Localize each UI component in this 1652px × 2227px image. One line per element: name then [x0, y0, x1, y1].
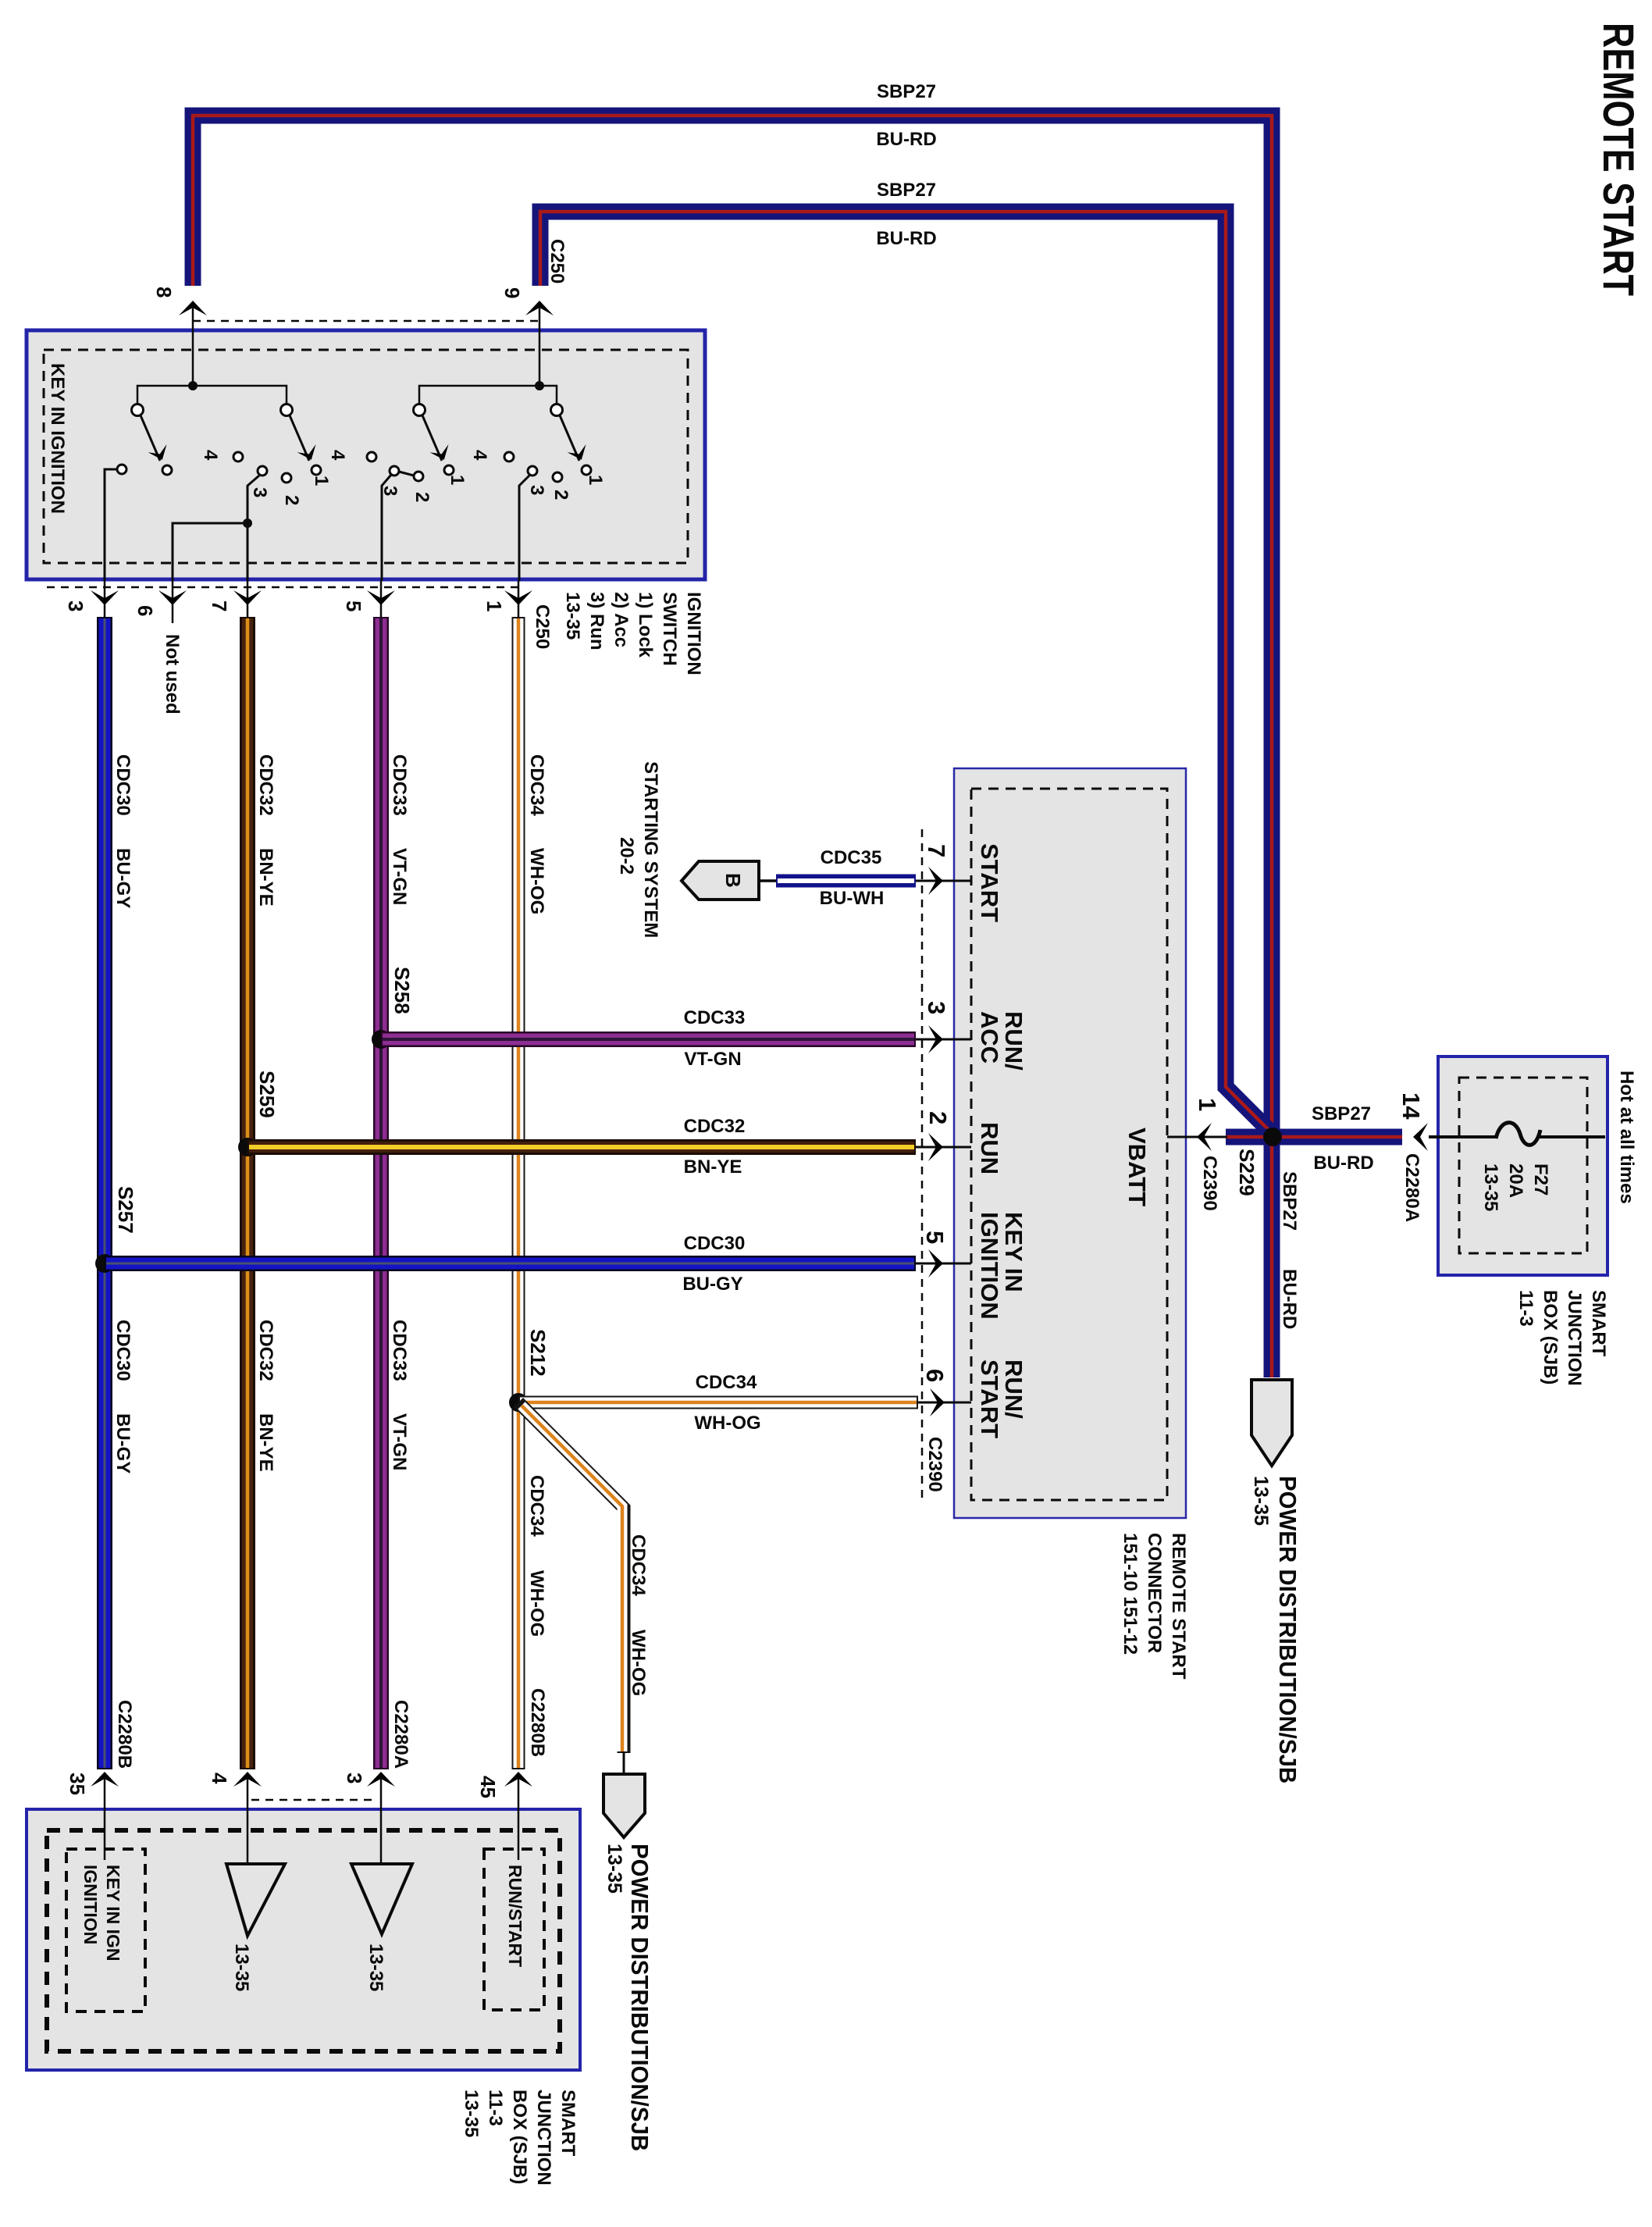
svg-text:2: 2: [924, 1111, 952, 1124]
switch wafer B: feed junction: [535, 381, 544, 390]
pin 14 arrow into fuse box: [1413, 1123, 1428, 1151]
wire CDC33 VT-GN (vertical): [373, 617, 389, 1769]
svg-text:5: 5: [342, 600, 365, 611]
svg-text:9: 9: [500, 287, 524, 298]
contact 2 (cluster 1): [282, 473, 291, 483]
svg-text:4: 4: [200, 450, 221, 461]
svg-text:CDC34: CDC34: [526, 754, 547, 816]
ground triangle 13-35 (pin 4): [226, 1864, 285, 1936]
wire CDC32 BN-YE (vertical): [240, 617, 255, 1769]
pin 7 arrow C250: [247, 581, 249, 617]
svg-text:VT-GN: VT-GN: [684, 1049, 741, 1070]
pin 8 arrow (C250): [179, 301, 207, 315]
svg-text:JUNCTION: JUNCTION: [1564, 1290, 1585, 1386]
contact 3 (cluster 1): [258, 466, 267, 476]
svg-text:SBP27: SBP27: [877, 180, 936, 201]
pin 1 stub of remote start connector (VBATT): [1167, 1136, 1227, 1138]
svg-text:WH-OG: WH-OG: [526, 848, 547, 914]
svg-text:2) Acc: 2) Acc: [611, 592, 632, 647]
svg-text:4: 4: [327, 450, 348, 461]
svg-text:1: 1: [311, 476, 332, 486]
svg-text:CDC34: CDC34: [628, 1534, 649, 1596]
svg-text:BU-RD: BU-RD: [876, 228, 936, 249]
pin 7 stub (START): [916, 880, 971, 882]
svg-text:4: 4: [469, 450, 490, 461]
wire junction to pin 6: [173, 523, 247, 581]
connector C2390 dashed line: [921, 829, 924, 1499]
pin 3 arrow C250: [104, 581, 106, 617]
svg-text:STARTING SYSTEM: STARTING SYSTEM: [640, 761, 661, 938]
svg-text:KEY IN IGN: KEY IN IGN: [103, 1865, 123, 1962]
svg-text:RUN/: RUN/: [1000, 1359, 1027, 1419]
splice S258 on CDC33: [372, 1030, 390, 1049]
svg-text:13-35: 13-35: [365, 1944, 386, 1991]
svg-text:11-3: 11-3: [485, 2090, 506, 2126]
svg-text:BU-GY: BU-GY: [682, 1274, 742, 1295]
svg-text:45: 45: [476, 1776, 500, 1798]
svg-text:RUN/: RUN/: [1000, 1011, 1027, 1071]
svg-text:1) Lock: 1) Lock: [635, 592, 656, 658]
svg-text:13-35: 13-35: [1480, 1163, 1501, 1211]
wire CDC34 WH-OG (diagonal branch to power distribution): [518, 1402, 624, 1753]
svg-text:4: 4: [208, 1773, 231, 1784]
wire contact 3 to junction (pins 6/7): [247, 476, 259, 523]
svg-text:13-35: 13-35: [461, 2090, 482, 2137]
svg-text:Hot at all times: Hot at all times: [1616, 1071, 1637, 1204]
contact 3 (cluster 2, feeds pin 5): [390, 466, 399, 476]
svg-text:BN-YE: BN-YE: [255, 848, 276, 907]
svg-text:VT-GN: VT-GN: [389, 848, 410, 905]
svg-text:7: 7: [208, 600, 231, 611]
starting system connector B: [682, 861, 759, 900]
pin 2 stub (RUN): [916, 1146, 971, 1149]
svg-text:C250: C250: [532, 604, 553, 649]
svg-text:11-3: 11-3: [1515, 1290, 1536, 1327]
svg-text:SBP27: SBP27: [1279, 1171, 1300, 1231]
svg-text:2: 2: [411, 492, 433, 502]
svg-text:CDC33: CDC33: [684, 1007, 746, 1028]
svg-text:C2280A: C2280A: [390, 1700, 411, 1769]
svg-text:3: 3: [343, 1773, 366, 1783]
svg-text:CDC34: CDC34: [696, 1372, 757, 1393]
pin 5 arrow C250: [380, 581, 383, 617]
wire junction to pin 7: [247, 523, 249, 581]
svg-text:BOX (SJB): BOX (SJB): [1540, 1290, 1561, 1384]
svg-text:POWER DISTRIBUTION/SJB: POWER DISTRIBUTION/SJB: [1274, 1476, 1301, 1783]
svg-text:BN-YE: BN-YE: [684, 1156, 742, 1178]
splice S259 on CDC32: [238, 1138, 257, 1156]
contact 3 (cluster 3, feeds pin 1): [528, 466, 537, 476]
svg-text:S259: S259: [255, 1071, 279, 1118]
svg-text:1: 1: [585, 475, 606, 485]
svg-text:B: B: [721, 873, 745, 888]
svg-text:5: 5: [921, 1231, 949, 1244]
svg-text:START: START: [976, 1359, 1003, 1438]
svg-text:1: 1: [447, 475, 468, 485]
remote start connector inner dashed border: [971, 789, 1167, 1500]
wire SBP27 from S229 to pin 1 (left): [1226, 1129, 1273, 1146]
svg-text:151-10 151-12: 151-10 151-12: [1120, 1533, 1141, 1655]
svg-text:13-35: 13-35: [231, 1944, 252, 1991]
smart junction box (bottom left): [27, 1809, 580, 2070]
KEY IN IGN IGNITION dashed sub-box: [66, 1849, 145, 2011]
svg-text:CDC30: CDC30: [684, 1233, 746, 1254]
connector C250 dashed line (bottom of ignition switch): [47, 586, 518, 589]
wire CDC30 BU-GY (vertical): [97, 617, 112, 1769]
svg-text:BU-GY: BU-GY: [112, 848, 134, 908]
ignition switch inner dashed border: [44, 350, 688, 563]
power distribution symbol (right, SBP27): [1251, 1380, 1292, 1466]
svg-text:CDC30: CDC30: [112, 1320, 134, 1381]
svg-text:S258: S258: [390, 967, 414, 1014]
fuse F27 20A 13-35 lead line: [1429, 1135, 1497, 1138]
svg-text:IGNITION: IGNITION: [976, 1212, 1003, 1320]
svg-text:C2390: C2390: [1199, 1156, 1220, 1211]
wire contact 3 to pin 1 exit: [519, 476, 529, 581]
splice S229: [1263, 1128, 1282, 1146]
contact 4 (cluster 3): [504, 452, 514, 461]
svg-text:3) Run: 3) Run: [586, 592, 607, 650]
wire CDC32 BN-YE (horizontal to pin 2): [247, 1139, 916, 1155]
svg-text:BU-GY: BU-GY: [112, 1413, 134, 1473]
svg-text:BU-WH: BU-WH: [820, 888, 885, 909]
svg-text:CDC32: CDC32: [255, 754, 276, 816]
svg-text:SMART: SMART: [557, 2090, 579, 2157]
splice S212 on CDC34: [509, 1393, 528, 1412]
contact 2 (cluster 2): [414, 472, 423, 481]
svg-text:20A: 20A: [1505, 1163, 1526, 1198]
fuse box inner dashed border: [1459, 1078, 1587, 1253]
contact 2 (cluster 3): [553, 472, 562, 482]
svg-text:20-2: 20-2: [616, 837, 637, 875]
svg-text:CDC32: CDC32: [684, 1116, 746, 1137]
svg-text:CDC34: CDC34: [526, 1475, 547, 1537]
pin 1 arrow C250: [518, 581, 520, 617]
svg-text:REMOTE START: REMOTE START: [1594, 23, 1643, 296]
svg-text:2: 2: [550, 490, 571, 500]
lead to power distribution symbol (left): [623, 1751, 625, 1774]
svg-text:WH-OG: WH-OG: [526, 1570, 547, 1637]
svg-text:S257: S257: [114, 1186, 137, 1234]
svg-text:SBP27: SBP27: [1312, 1103, 1371, 1124]
svg-text:C2390: C2390: [924, 1437, 945, 1492]
lead from B connector: [759, 879, 778, 882]
pin 9 arrow (C250): [525, 301, 554, 315]
pin 3 stub (RUN/ACC): [916, 1039, 971, 1041]
svg-text:SBP27: SBP27: [877, 81, 936, 102]
RUN/START dashed sub-box: [484, 1849, 544, 2010]
wire CDC30 BU-GY (horizontal to pin 5): [105, 1256, 916, 1271]
svg-text:BU-RD: BU-RD: [1313, 1153, 1373, 1174]
svg-text:CDC33: CDC33: [389, 1320, 410, 1381]
svg-text:BOX (SJB): BOX (SJB): [509, 2090, 530, 2184]
switch wafer B left wiper: [422, 415, 442, 461]
svg-text:WH-OG: WH-OG: [694, 1413, 760, 1434]
svg-text:CDC33: CDC33: [389, 754, 410, 816]
svg-text:CDC30: CDC30: [112, 754, 134, 816]
fuse element F27: [1496, 1123, 1540, 1146]
connector dashed line between pins 4 and 3: [251, 1799, 377, 1801]
svg-text:VT-GN: VT-GN: [389, 1413, 410, 1470]
svg-text:IGNITION: IGNITION: [80, 1865, 101, 1944]
svg-text:S229: S229: [1235, 1149, 1259, 1196]
svg-text:3: 3: [249, 487, 270, 497]
wire SBP27 from S229 to fuse (right): [1273, 1129, 1402, 1146]
switch wafer A common contacts: [132, 404, 144, 416]
wire CDC35 BU-WH: [776, 875, 916, 888]
bottom SJB inner bold dashed border: [47, 1830, 560, 2051]
pin 6 arrow C250 (Not used): [172, 581, 174, 623]
wire SBP27 bus 1 (top) BU-RD: [193, 116, 1272, 1377]
wire contact to pin 3 exit: [105, 469, 116, 581]
svg-text:RUN: RUN: [976, 1122, 1003, 1174]
svg-text:JUNCTION: JUNCTION: [533, 2090, 554, 2186]
bridge contact 3 to contact 2 (cluster 2): [399, 472, 414, 476]
svg-text:KEY IN IGNITION: KEY IN IGNITION: [47, 363, 68, 514]
wire CDC33 VT-GN (horizontal to pin 3): [381, 1032, 916, 1047]
wire contact 3 to pin 5 exit: [382, 475, 391, 581]
svg-text:RUN/START: RUN/START: [505, 1865, 525, 1967]
remote start connector box: [954, 768, 1186, 1518]
splice S257 on CDC30: [95, 1254, 114, 1273]
svg-text:8: 8: [152, 287, 176, 298]
pin 3 arrow C2280A: [367, 1772, 395, 1787]
svg-text:3: 3: [923, 1001, 950, 1014]
switch wafer B top bar: [419, 386, 557, 404]
svg-text:SWITCH: SWITCH: [659, 592, 680, 666]
svg-text:WH-OG: WH-OG: [628, 1630, 649, 1696]
switch wafer A right wiper: [290, 415, 309, 461]
pin 35 arrow C2280B: [91, 1772, 119, 1787]
svg-text:14: 14: [1397, 1092, 1425, 1120]
ignition switch box (KEY IN IGNITION): [27, 330, 705, 579]
svg-text:Not used: Not used: [162, 634, 183, 714]
svg-text:C2280B: C2280B: [527, 1688, 548, 1757]
pin 6 stub (RUN/START): [918, 1402, 971, 1404]
svg-text:13-35: 13-35: [1250, 1476, 1272, 1526]
contact 4 (cluster 2): [367, 452, 376, 461]
junction node (pins 6/7): [243, 518, 252, 528]
ground triangle 13-35 (pin 3): [351, 1864, 412, 1934]
svg-text:F27: F27: [1530, 1163, 1551, 1195]
contact 4 (cluster 1): [233, 452, 243, 461]
svg-text:CDC32: CDC32: [255, 1320, 276, 1381]
wire SBP27 bus 2 (second) BU-RD: [540, 212, 1271, 1132]
connector C250 dashed line (top): [193, 320, 539, 322]
svg-text:CDC35: CDC35: [821, 847, 882, 868]
pin 45 arrow C2280B: [504, 1772, 532, 1787]
svg-text:SMART: SMART: [1588, 1290, 1609, 1357]
svg-text:BN-YE: BN-YE: [255, 1413, 276, 1472]
svg-text:3: 3: [64, 600, 87, 611]
svg-text:13-35: 13-35: [562, 592, 583, 640]
svg-text:13-35: 13-35: [603, 1844, 625, 1894]
switch wafer B right wiper: [560, 415, 579, 461]
switch wafer A left wiper: [141, 415, 160, 461]
svg-text:35: 35: [66, 1773, 89, 1795]
switch wafer B common contacts: [414, 404, 425, 416]
svg-text:6: 6: [134, 605, 157, 616]
wire CDC34 WH-OG (horizontal to pin 6): [518, 1396, 918, 1409]
power distribution symbol (left, CDC34): [603, 1774, 645, 1837]
svg-text:REMOTE START: REMOTE START: [1168, 1533, 1189, 1680]
svg-text:1: 1: [1194, 1098, 1221, 1111]
svg-text:START: START: [976, 843, 1003, 922]
switch wafer A: feed junction: [188, 381, 198, 390]
smart junction box (fuse box, top right): [1438, 1056, 1607, 1275]
svg-text:IGNITION: IGNITION: [683, 592, 704, 675]
svg-text:VBATT: VBATT: [1123, 1128, 1151, 1206]
svg-text:POWER DISTRIBUTION/SJB: POWER DISTRIBUTION/SJB: [626, 1844, 653, 2151]
pin 5 stub (KEY IN IGNITION): [916, 1263, 971, 1265]
svg-text:1: 1: [482, 600, 506, 611]
svg-text:S212: S212: [526, 1329, 550, 1377]
svg-text:2: 2: [281, 495, 302, 505]
pin 4 arrow: [233, 1772, 262, 1787]
svg-text:C250: C250: [547, 239, 568, 283]
svg-text:ACC: ACC: [976, 1011, 1003, 1064]
svg-text:CONNECTOR: CONNECTOR: [1144, 1533, 1165, 1653]
contact circle (pin 3 exit): [117, 465, 126, 474]
svg-text:BU-RD: BU-RD: [1279, 1269, 1300, 1329]
svg-text:KEY IN: KEY IN: [1000, 1212, 1027, 1292]
wire CDC34 WH-OG (vertical): [512, 617, 525, 1769]
switch wafer A top bar: [137, 386, 287, 404]
svg-text:C2280A: C2280A: [1401, 1153, 1422, 1222]
svg-text:7: 7: [923, 844, 950, 857]
svg-text:BU-RD: BU-RD: [876, 129, 936, 150]
svg-text:6: 6: [921, 1369, 949, 1382]
svg-text:3: 3: [526, 485, 547, 495]
svg-text:C2280B: C2280B: [114, 1700, 135, 1769]
